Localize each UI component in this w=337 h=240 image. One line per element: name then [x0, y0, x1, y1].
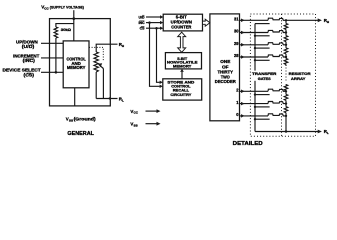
svg-text:L: L	[327, 131, 329, 135]
memory block U2	[165, 53, 201, 69]
wire pot bottom to RL rail	[95, 72, 97, 99]
svg-text:GATES: GATES	[258, 76, 271, 81]
text mask for gate labels	[252, 71, 277, 81]
svg-text:COUNTER: COUNTER	[171, 24, 191, 29]
control and memory block	[63, 41, 89, 88]
svg-text:29: 29	[234, 41, 239, 46]
svg-text:SS: SS	[134, 123, 138, 127]
wire CS to counter	[146, 27, 160, 29]
wire gate lead 31	[255, 23, 270, 25]
counter block U1	[163, 14, 202, 31]
wire wiper to RL rail	[102, 69, 104, 99]
wire RL output	[255, 131, 318, 133]
svg-text:CC: CC	[134, 111, 139, 115]
svg-text:DETAILED: DETAILED	[233, 141, 263, 147]
wire VCC to control block	[73, 19, 75, 41]
resistor array chain	[285, 20, 287, 23]
wire CS input	[41, 71, 63, 73]
wire gate lead 1	[255, 106, 270, 108]
wire resistor to CS line	[55, 38, 57, 72]
svg-text:INC: INC	[138, 21, 145, 25]
wire VSS legend arrow	[146, 123, 157, 125]
svg-text:CS: CS	[140, 27, 146, 31]
bus arrow counter to decoder (hollow)	[203, 19, 210, 26]
wire gate lead 0	[255, 118, 270, 120]
svg-text:(SUPPLY VOLTAGE): (SUPPLY VOLTAGE)	[50, 5, 85, 10]
svg-text:DECODER: DECODER	[215, 79, 236, 84]
transistor Q1 transfer gate	[268, 102, 286, 104]
wiper arrow	[100, 66, 103, 69]
svg-text:ARRAY: ARRAY	[291, 76, 306, 81]
wire RH output	[286, 19, 318, 21]
svg-text:MEMORY: MEMORY	[173, 63, 192, 68]
wire dotted control link	[89, 47, 103, 61]
decoder block U4	[210, 14, 240, 121]
svg-text:30kΩ: 30kΩ	[61, 27, 71, 32]
wire INC to counter	[146, 22, 160, 24]
wire gate lead 28	[255, 59, 270, 61]
svg-text:MEMORY: MEMORY	[67, 65, 86, 70]
svg-text:CIRCUITRY: CIRCUITRY	[170, 92, 191, 97]
wire VSS lead	[74, 88, 76, 106]
svg-text:30: 30	[234, 29, 239, 34]
svg-text:31: 31	[234, 17, 239, 22]
svg-text:L: L	[122, 99, 124, 103]
wire chain continuation dots	[285, 68, 287, 83]
wire gate lead 30	[255, 35, 270, 37]
svg-text:DEVICE SELECT: DEVICE SELECT	[3, 68, 42, 73]
svg-text:GENERAL: GENERAL	[67, 131, 94, 137]
wire CS to store/recall	[157, 28, 160, 82]
dashed divider	[281, 14, 283, 136]
wire VCC lead	[73, 10, 75, 18]
transistor Q2 transfer gate	[268, 89, 286, 91]
wire RL rail	[96, 98, 117, 100]
transistor Q28 transfer gate	[268, 55, 286, 57]
svg-text:SS: SS	[69, 118, 73, 122]
transistor Q29 transfer gate	[268, 43, 286, 45]
node resistor/CS junction	[55, 71, 58, 74]
wire resistor branch	[56, 24, 74, 27]
svg-text:28: 28	[234, 53, 239, 58]
wire INC to store/recall	[150, 23, 160, 87]
wire INC input	[41, 57, 63, 59]
store and recall block U3	[163, 79, 202, 100]
wire store to memory arrow	[181, 72, 183, 79]
node INC branch junction	[148, 21, 151, 24]
wire gate lead 2	[255, 94, 270, 96]
svg-text:U/D: U/D	[138, 15, 145, 19]
potentiometer resistor element	[94, 52, 98, 72]
transistor Q0 transfer gate	[268, 114, 286, 116]
wire RH line	[96, 44, 117, 52]
wire VCC legend arrow	[146, 110, 157, 112]
svg-text:OF: OF	[222, 64, 229, 69]
transistor Q30 transfer gate	[268, 30, 286, 32]
device outline box (general)	[50, 19, 111, 106]
resistor R1 30k pull-up	[54, 27, 58, 38]
wire wiper bus	[254, 24, 256, 132]
wire U/D to counter	[146, 16, 160, 18]
transistor Q31 transfer gate	[268, 18, 286, 20]
node CS branch junction	[155, 27, 158, 30]
wire gate lead 29	[255, 47, 270, 49]
bus arrow counter to memory (bidirectional hollow)	[178, 32, 186, 52]
node VCC junction	[72, 17, 75, 20]
transfer gates / resistor array dashed box	[250, 14, 315, 136]
wire U/D input	[41, 42, 63, 44]
node RL/box-edge junction	[109, 97, 111, 99]
node chain bottom junction	[285, 130, 288, 133]
svg-text:(Ground): (Ground)	[74, 116, 97, 121]
